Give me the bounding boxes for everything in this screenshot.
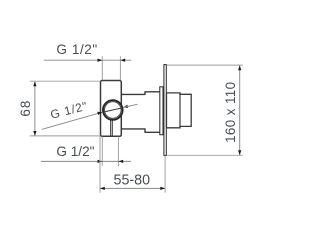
- svg-text:G 1/2": G 1/2": [56, 144, 94, 159]
- slot chord through port: [104, 108, 122, 112]
- plate dim arrow top: [238, 65, 241, 70]
- bottom port dimension line: [41, 160, 131, 162]
- wall plate (160x110 edge view): [164, 65, 166, 156]
- svg-text:G 1/2": G 1/2": [56, 42, 97, 57]
- svg-text:68: 68: [18, 100, 33, 117]
- depth 55-80 extension lines: [100, 137, 165, 193]
- cartridge housing behind plate: [167, 93, 192, 128]
- top dimension line: [44, 59, 132, 61]
- mid leader tail: [123, 104, 138, 107]
- left dim arrow top: [33, 81, 36, 86]
- mid leader line to port: [42, 112, 103, 129]
- svg-text:160 x 110: 160 x 110: [223, 81, 238, 142]
- mid leader right arrow at circle right: [123, 105, 128, 108]
- svg-text:55-80: 55-80: [114, 173, 151, 189]
- plate dim arrow bottom: [238, 150, 241, 155]
- top dimension G 1/2 extension lines: [102, 56, 120, 80]
- front port circle outer: [103, 100, 123, 120]
- depth 55-80 dimension line: [100, 187, 165, 189]
- valve body: [101, 81, 122, 137]
- plate dimension 160x110 extension lines: [167, 65, 243, 155]
- depth arrow right: [160, 187, 165, 190]
- left dimension line: [34, 82, 36, 136]
- wall-side tube (stepped cylinder to plate): [121, 92, 160, 133]
- top dim arrow left: [98, 59, 103, 62]
- step vertical between housing sections: [179, 93, 181, 128]
- bottom outlet passage lines: [111, 120, 113, 137]
- front port circle inner: [105, 102, 122, 119]
- bottom port arrow left: [98, 160, 103, 163]
- left dim arrow bottom: [33, 131, 36, 136]
- depth arrow left: [100, 187, 105, 190]
- flange ring (escutcheon edge view): [160, 87, 163, 135]
- bottom port dim extension lines: [102, 137, 118, 167]
- mid leader arrow at circle left: [97, 112, 102, 115]
- top dim arrow right: [120, 59, 125, 62]
- left dimension 68 extension lines: [30, 81, 101, 136]
- bottom port arrow right: [118, 160, 123, 163]
- plate dimension line: [239, 65, 241, 155]
